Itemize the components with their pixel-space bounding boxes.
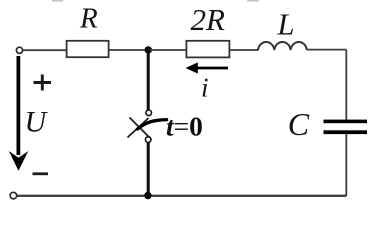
inductor L [258, 42, 307, 50]
wire switch to node B [147, 143, 150, 196]
wire capacitor to bottom corner [345, 134, 347, 196]
svg-text:t=0: t=0 [166, 110, 203, 141]
label minus sign [33, 172, 49, 175]
wire node A to 2R [148, 49, 186, 51]
svg-text:i: i [201, 73, 209, 103]
svg-text:C: C [288, 106, 310, 142]
capacitor C plate bottom [324, 130, 368, 134]
resistor R [67, 41, 109, 57]
junction node A [145, 46, 152, 53]
resistor 2R [186, 41, 229, 58]
svg-text:L: L [277, 8, 295, 42]
switch lower contact [145, 137, 151, 143]
wire 2R to L [229, 49, 258, 51]
terminal bottom-left [10, 192, 17, 199]
wire L to corner [307, 49, 346, 51]
current arrow i shaft [197, 67, 228, 70]
capacitor C plate top [324, 120, 368, 124]
svg-text:U: U [25, 105, 49, 138]
voltage arrow U shaft [16, 56, 20, 155]
wire right side down to capacitor [345, 50, 347, 120]
current arrow i head [186, 62, 198, 73]
top crop smudge left [52, 0, 63, 2]
switch blade [138, 120, 167, 129]
switch X mark line 2 [128, 118, 149, 138]
voltage arrow U head [9, 151, 29, 171]
terminal top-left [16, 47, 22, 53]
bottom wire [17, 195, 347, 197]
wire node A down to switch [147, 50, 150, 110]
switch X mark line 1 [130, 118, 151, 139]
junction node B bottom [144, 192, 151, 199]
wire terminal to R [23, 49, 67, 51]
svg-text:R: R [79, 2, 98, 34]
label plus sign [34, 75, 52, 91]
wire R to node A [109, 49, 148, 51]
top crop smudge right [247, 0, 259, 2]
svg-text:2R: 2R [191, 2, 226, 37]
switch upper contact [146, 110, 152, 116]
